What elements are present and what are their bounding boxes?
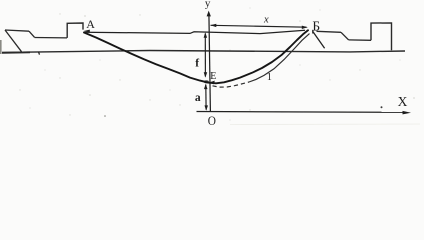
- dark speck bottom left: [104, 115, 106, 117]
- vertex junction blob: [204, 80, 209, 83]
- ground tick: [39, 52, 40, 55]
- svg-text:a: a: [195, 92, 201, 104]
- dark speck near X label: [381, 106, 383, 108]
- svg-text:f: f: [195, 57, 199, 69]
- svg-text:X: X: [398, 94, 408, 109]
- right support block: [371, 23, 392, 50]
- curve 2 solid part: [249, 34, 310, 82]
- curve 2 dashed part: [213, 82, 250, 87]
- left bank wedge diagonal: [5, 30, 22, 52]
- chord line A-B: [84, 30, 305, 33]
- svg-text:E: E: [210, 71, 216, 82]
- left bank top line: [5, 30, 29, 31]
- X axis: [197, 111, 404, 114]
- left bank lower line: [35, 37, 68, 39]
- f dimension top arrowhead: [204, 32, 208, 37]
- Y axis: [209, 13, 211, 112]
- svg-text:O: O: [208, 113, 216, 128]
- left edge smudge: [0, 40, 2, 54]
- vertex leader arrowhead: [209, 81, 215, 85]
- x dimension left arrowhead: [210, 24, 216, 27]
- svg-text:A: A: [86, 17, 95, 31]
- scan noise speckles: [19, 7, 415, 120]
- f dimension bottom arrowhead: [204, 72, 208, 77]
- x dimension line: [211, 25, 307, 27]
- ground line left thick part: [2, 51, 30, 54]
- right bank top line: [317, 31, 342, 32]
- Y axis arrowhead: [207, 11, 211, 17]
- curve 1 (wire, solid): [84, 30, 308, 83]
- X axis arrowhead: [403, 111, 412, 115]
- left bank step diagonal: [29, 31, 35, 37]
- right bank step diagonal: [341, 32, 349, 40]
- a dimension line: [205, 85, 207, 110]
- svg-text:x: x: [263, 14, 269, 25]
- x dimension right arrowhead: [302, 26, 308, 29]
- f dimension line: [204, 34, 206, 77]
- faint bottom streak: [230, 123, 420, 126]
- svg-text:y: y: [205, 0, 211, 9]
- right bank lower line: [349, 39, 372, 41]
- ground line (full width terrain line): [2, 51, 405, 53]
- support strut under B vertical: [312, 30, 314, 34]
- a dimension top arrowhead: [204, 84, 208, 89]
- a dimension bottom arrowhead: [205, 105, 209, 110]
- support post A: [67, 23, 83, 38]
- attachment arrowhead at A: [84, 30, 90, 33]
- support strut under B diagonal: [313, 32, 325, 49]
